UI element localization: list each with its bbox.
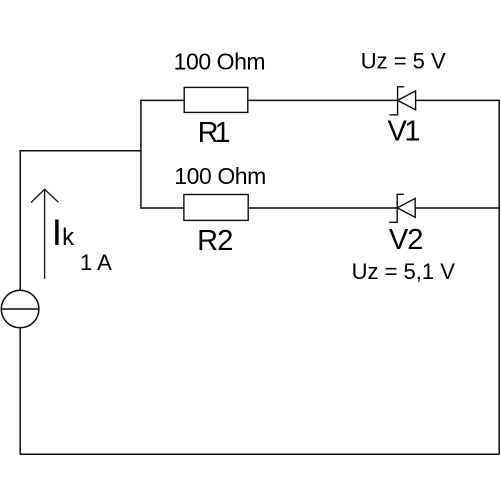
svg-text:Uz = 5 V: Uz = 5 V xyxy=(361,49,446,74)
svg-text:V1: V1 xyxy=(388,116,421,148)
svg-text:Ik: Ik xyxy=(52,212,75,253)
svg-text:V2: V2 xyxy=(389,224,424,256)
svg-text:1 A: 1 A xyxy=(80,250,112,275)
svg-text:100 Ohm: 100 Ohm xyxy=(174,49,266,75)
svg-text:R1: R1 xyxy=(198,117,231,149)
svg-text:100 Ohm: 100 Ohm xyxy=(174,163,266,189)
svg-text:R2: R2 xyxy=(197,225,233,257)
svg-text:Uz = 5,1 V: Uz = 5,1 V xyxy=(352,259,456,284)
